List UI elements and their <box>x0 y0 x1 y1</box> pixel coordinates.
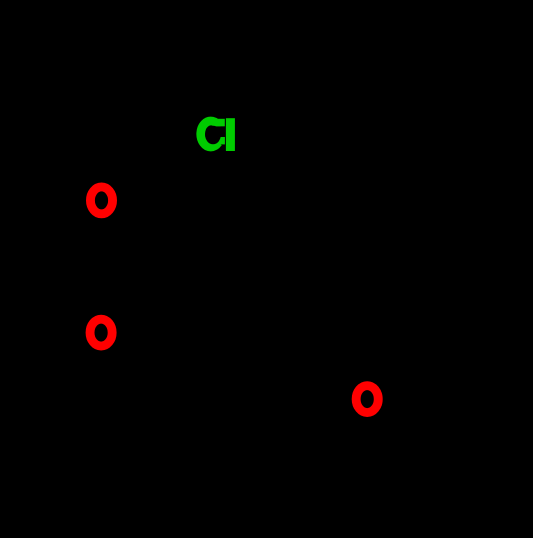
atom label O1 (ester O, upper left) <box>90 187 112 214</box>
atom label O3 (methoxy O, lower right) <box>356 386 378 413</box>
atom label Cl (chlorine) <box>201 118 235 151</box>
atom label O2 (carbonyl O, lower left) <box>90 319 112 346</box>
